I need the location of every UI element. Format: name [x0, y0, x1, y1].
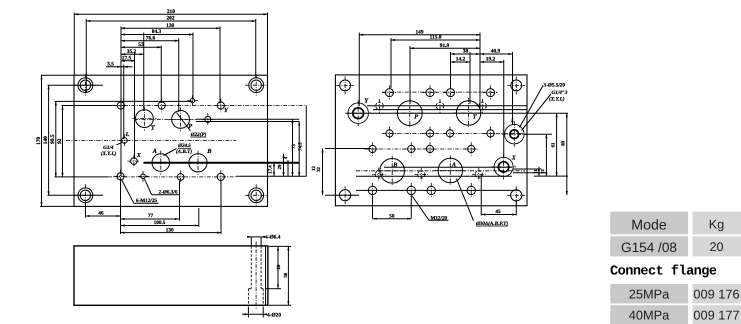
port X RV	[491, 154, 516, 179]
svg-text:40.9: 40.9	[491, 49, 501, 55]
ext right group col	[479, 33, 481, 109]
dim 4 line	[287, 160, 289, 176]
dim 210	[74, 9, 267, 15]
corner hole top-right RV	[507, 76, 525, 94]
dim 46	[85, 211, 120, 217]
third row hole x=450	[443, 127, 457, 141]
hidden hole lower x=478.75	[472, 168, 486, 182]
mounting hole top-right	[245, 74, 267, 96]
centerline third row RV	[382, 132, 524, 134]
dim 17.4	[268, 162, 276, 176]
svg-text:29: 29	[277, 164, 283, 169]
hole x-row left	[114, 99, 128, 113]
dim 74.5	[298, 122, 304, 177]
svg-text:B: B	[206, 148, 212, 155]
fifth row hole x=411.25	[404, 183, 419, 198]
svg-text:Ø24.5: Ø24.5	[177, 143, 191, 149]
svg-text:140: 140	[43, 136, 49, 144]
svg-text:G1/4″3: G1/4″3	[552, 90, 568, 96]
svg-text:Kg: Kg	[709, 218, 724, 232]
svg-text:46: 46	[98, 211, 104, 217]
hidden hole line left	[250, 246, 252, 289]
svg-text:6-M12/25: 6-M12/25	[136, 198, 157, 204]
top row hole x=490.5	[483, 85, 497, 99]
dim 92	[57, 106, 64, 177]
ext mid col	[450, 52, 452, 88]
svg-text:50: 50	[389, 213, 395, 219]
svg-text:25MPa: 25MPa	[629, 286, 670, 301]
top row hole x=389.5	[382, 85, 396, 99]
pin hole bottom	[138, 171, 149, 182]
ext Y-row left	[62, 105, 118, 107]
label 3-Ø5.5/20 and G1/4 (X.Y.L) with leaders	[520, 83, 568, 131]
svg-text:26: 26	[276, 264, 282, 269]
svg-text:G1/4: G1/4	[103, 145, 114, 151]
ext hole row left top	[48, 84, 104, 86]
ext 6.4 left	[250, 237, 252, 246]
mounting hole bottom-right	[245, 184, 267, 206]
ext bottom edge left	[40, 205, 74, 207]
port L	[118, 134, 130, 146]
dim 35.2	[121, 49, 144, 56]
dim 202	[86, 16, 256, 23]
dim 38	[451, 49, 481, 56]
dim 130 bottom	[121, 227, 222, 233]
ext col mid	[160, 46, 162, 104]
port T RV	[454, 98, 484, 128]
svg-text:99.5: 99.5	[50, 134, 56, 144]
ext Y col	[358, 33, 360, 107]
dim 14.2	[451, 57, 471, 64]
ext corner left RV	[325, 194, 359, 196]
extension line from P (lower)	[196, 121, 299, 123]
svg-text:(X.Y.L): (X.Y.L)	[101, 151, 117, 157]
mounting hole bottom-left	[74, 184, 96, 206]
ext bottom RV 45 right	[515, 201, 517, 216]
svg-text:Ø22(P): Ø22(P)	[190, 132, 207, 138]
svg-text:61: 61	[550, 142, 556, 147]
centerline fourth row RV	[364, 148, 478, 150]
ext row4 left RV	[325, 148, 371, 150]
svg-text:202: 202	[166, 16, 174, 22]
label Ø30(A.B.P.T) with leader	[457, 179, 509, 227]
corner hole bottom-right RV	[507, 186, 525, 204]
svg-text:19.2: 19.2	[486, 57, 496, 63]
ext 210 left	[73, 13, 75, 76]
ext first hole col	[390, 38, 392, 88]
hole right of P	[202, 113, 214, 125]
ext bottom Y col	[220, 181, 222, 234]
svg-text:T: T	[473, 114, 477, 121]
hidden hole lower x=378.75	[372, 168, 386, 182]
svg-text:74.5: 74.5	[298, 142, 304, 151]
extension line bottom row right	[236, 175, 307, 177]
svg-text:3.5: 3.5	[107, 61, 114, 67]
ext col P	[178, 39, 180, 113]
centerline row Y	[63, 105, 236, 107]
dim 3.5	[106, 61, 133, 67]
label 2-Ø6.3/6 with leader	[144, 179, 179, 196]
svg-text:4-Ø20: 4-Ø20	[267, 313, 281, 319]
svg-text:45: 45	[495, 209, 501, 215]
label Ø22(P) with leader	[177, 113, 207, 138]
svg-text:17.5: 17.5	[122, 55, 132, 61]
fifth row hole x=471.25	[464, 183, 479, 198]
counterbore visible edge line	[265, 246, 267, 305]
plate outline left view	[74, 75, 268, 206]
dim 36	[283, 246, 289, 305]
lower band line A-B row	[356, 175, 512, 177]
port T	[132, 107, 156, 131]
ext bottom RV mid	[410, 196, 412, 219]
fourth row hole x=430	[423, 142, 437, 156]
ext col gauge	[192, 33, 194, 100]
svg-text:32: 32	[316, 167, 322, 172]
ext counterbore right	[262, 307, 264, 318]
svg-text:A: A	[152, 148, 157, 155]
svg-text:(X.Y.L): (X.Y.L)	[549, 97, 565, 103]
ext hole row left bottom	[48, 194, 104, 196]
upper band line A-B row	[384, 166, 512, 168]
svg-text:Ø30Δ(A.B.P.T): Ø30Δ(A.B.P.T)	[475, 221, 508, 227]
line fifth row RV	[356, 189, 519, 191]
port P	[169, 107, 193, 131]
svg-text:100.5: 100.5	[154, 220, 166, 226]
upper band line RV	[367, 105, 527, 107]
ext 202 right	[255, 19, 257, 78]
ext X col	[503, 60, 505, 158]
ext counterbore depth	[265, 288, 281, 290]
svg-text:170: 170	[36, 136, 42, 144]
third row hole x=430	[423, 127, 437, 141]
ext L col	[512, 52, 514, 125]
svg-text:20: 20	[709, 240, 723, 254]
ext bottom corner hole	[84, 203, 86, 218]
svg-text:130: 130	[166, 23, 174, 29]
hidden hole x=482.5	[476, 99, 490, 113]
port X	[127, 155, 140, 168]
svg-text:210: 210	[167, 9, 175, 15]
ext gauge row	[55, 100, 194, 102]
extension line from P (upper)	[196, 118, 299, 120]
bolt hole M12 bottom-left	[114, 170, 128, 184]
svg-text:36: 36	[283, 272, 289, 277]
side view: plate section	[74, 246, 268, 305]
ext top face	[269, 245, 291, 247]
top row hole x=430	[423, 85, 437, 99]
ext col L	[123, 65, 125, 140]
svg-text:21: 21	[540, 169, 545, 173]
table: pressure / order number	[610, 284, 688, 303]
tiny gauge hole	[187, 95, 198, 106]
heavy edge line through A-B	[144, 162, 300, 164]
ext bottom mid hole	[179, 181, 181, 221]
hole bottom right	[214, 170, 228, 184]
centerline bottom row	[108, 176, 236, 178]
svg-text:40MPa: 40MPa	[629, 307, 670, 322]
main line through Y P T	[347, 112, 568, 114]
dim 100.5	[121, 220, 199, 226]
svg-text:4-Ø6.4: 4-Ø6.4	[265, 234, 281, 240]
svg-text:89: 89	[561, 140, 567, 145]
svg-text:(A.B.T): (A.B.T)	[176, 149, 192, 155]
dim 130 top	[121, 23, 220, 30]
svg-text:73: 73	[291, 144, 297, 149]
ext right dims outer	[305, 106, 307, 177]
dim 91.9	[410, 43, 480, 50]
ext col T	[143, 33, 145, 112]
ext 6.4 right	[260, 237, 262, 246]
port Y	[214, 99, 228, 113]
dim 21 RV	[540, 134, 547, 176]
svg-text:77: 77	[148, 213, 154, 219]
svg-text:84.3: 84.3	[152, 29, 162, 35]
centerline row P-T	[134, 118, 196, 120]
ext X step upper	[513, 168, 542, 170]
svg-text:3-Ø5.5/20: 3-Ø5.5/20	[544, 83, 566, 89]
ext top edge left	[41, 74, 74, 76]
fourth row hole x=372.5	[366, 142, 380, 156]
ext col X	[134, 53, 136, 160]
ext bottom RV 45 left	[480, 175, 482, 216]
ext bottom M12	[120, 181, 122, 235]
port A RV	[435, 156, 465, 186]
hole centerline side view	[255, 242, 257, 311]
port A	[149, 151, 173, 175]
dim 32 RV	[316, 149, 324, 196]
label G1/4 (X,Y,L) with leader	[101, 143, 122, 157]
dim 29	[277, 154, 285, 177]
port P RV	[395, 98, 425, 128]
label Ø24.5 (A,B,T) with leader	[164, 143, 193, 156]
svg-text:38: 38	[463, 49, 469, 55]
corner hole top-left RV	[336, 76, 354, 94]
label M12/20 with leader	[412, 196, 449, 222]
dim 40.9	[480, 49, 513, 56]
svg-text:Connect flange: Connect flange	[610, 263, 717, 279]
dim 89 RV	[561, 113, 568, 195]
svg-text:Mode: Mode	[631, 217, 667, 233]
ext col Y	[219, 27, 221, 104]
counterbore line left	[247, 289, 249, 306]
ext Y-row to right dims	[230, 105, 307, 107]
hole x-row mid	[155, 99, 169, 113]
corner hole bottom-left RV	[336, 186, 354, 204]
svg-text:11: 11	[533, 169, 538, 173]
dim 11 RV	[533, 167, 540, 176]
centerline A-B-X row RV	[356, 170, 525, 172]
svg-text:35.2: 35.2	[127, 49, 137, 55]
hidden hole x=440	[433, 99, 447, 113]
ext 202 left	[85, 19, 87, 93]
fifth row hole x=372.5	[365, 183, 380, 198]
top row hole x=450.5	[443, 85, 457, 99]
ext 210 right	[267, 13, 269, 76]
dim 73	[291, 119, 297, 176]
ext bottom face	[269, 304, 291, 306]
hidden hole x=379.5	[373, 99, 387, 113]
hidden hole line right	[260, 246, 262, 289]
fourth row hole x=471.25	[464, 142, 478, 156]
svg-text:14.2: 14.2	[456, 57, 466, 63]
dim 77	[121, 213, 179, 220]
label 6-M12/25 with leader	[122, 180, 159, 204]
svg-text:P: P	[414, 114, 418, 121]
port B	[186, 151, 210, 175]
port B RV	[377, 156, 407, 186]
third row hole x=389.5	[383, 127, 397, 141]
ext bottom row left	[55, 176, 109, 178]
counterbore step left	[248, 288, 251, 290]
dim 99.5	[50, 101, 57, 176]
ext lower right	[534, 175, 568, 177]
centerline row L	[66, 139, 236, 141]
svg-text:149: 149	[415, 29, 423, 35]
port Y RV	[345, 100, 371, 126]
ext T col	[469, 52, 471, 104]
dim 170	[36, 75, 43, 206]
dim 17.5	[121, 55, 135, 62]
svg-text:76.6: 76.6	[146, 35, 156, 41]
plate outline right view	[335, 75, 527, 206]
ext bottom RV left	[372, 196, 374, 219]
ext counterbore left	[247, 307, 249, 318]
svg-text:M12/20: M12/20	[430, 215, 447, 221]
svg-text:G154 /08: G154 /08	[621, 240, 677, 255]
svg-text:L: L	[125, 132, 130, 138]
ext bottom B col	[198, 208, 200, 227]
svg-text:91.9: 91.9	[440, 43, 450, 49]
middle band line RV	[373, 109, 527, 111]
dim 50 RV	[373, 213, 412, 219]
mounting hole top-left	[74, 74, 96, 96]
dim 61 RV	[550, 113, 557, 176]
third row hole x=490.5	[484, 127, 498, 141]
svg-text:130: 130	[166, 227, 174, 233]
fifth row hole x=431.25	[424, 183, 439, 198]
svg-text:009 176: 009 176	[693, 286, 739, 301]
svg-text:115.8: 115.8	[430, 35, 442, 41]
centerline top row RV	[382, 91, 497, 93]
dim 115.8	[391, 35, 480, 42]
table: Mode / Kg	[610, 212, 741, 324]
svg-text:17.4: 17.4	[268, 165, 274, 174]
svg-text:53: 53	[138, 42, 144, 48]
dim 76.6	[121, 35, 179, 42]
hole bottom mid	[174, 170, 187, 183]
ext col M12	[120, 27, 122, 177]
counterbore step right	[261, 288, 263, 290]
svg-text:2-Ø6.3/6: 2-Ø6.3/6	[159, 190, 178, 196]
dim 26	[276, 246, 282, 288]
port L RV	[502, 122, 527, 147]
dim 53	[121, 42, 161, 49]
ext X step lower	[513, 172, 547, 174]
dim 149	[359, 29, 480, 36]
dim 84.3	[121, 29, 193, 36]
fourth row hole x=411.25	[404, 142, 418, 156]
hidden hole lower x=421.25	[414, 168, 428, 182]
dim 19.2	[480, 57, 504, 64]
dim 140	[43, 85, 50, 195]
ext L row right	[524, 133, 552, 135]
svg-text:009 177: 009 177	[693, 307, 739, 322]
dim 45 RV	[481, 209, 516, 215]
ext P col	[409, 46, 411, 104]
counterbore line right	[262, 289, 264, 306]
svg-text:92: 92	[57, 138, 63, 144]
